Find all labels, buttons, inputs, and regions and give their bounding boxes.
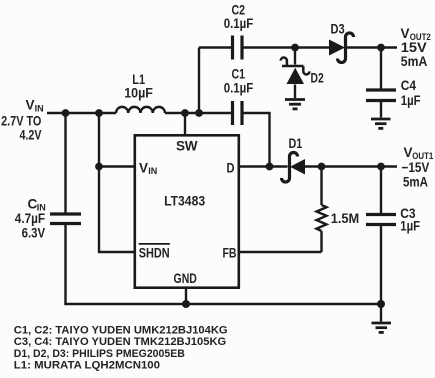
IC pin label VIN: [139, 160, 157, 176]
wire GND pin drop: [185, 288, 187, 304]
wire D pin: [239, 165, 270, 167]
node junction dot D2: [291, 44, 299, 52]
capacitor C4: [366, 48, 396, 118]
inductor L1: [116, 107, 165, 113]
wire x99 riser to SHDN: [99, 113, 135, 252]
svg-text:D3: D3: [331, 22, 346, 37]
node VOUT1 label: [402, 145, 434, 190]
capacitor C3: [366, 167, 396, 305]
wire D3 to VOUT2: [347, 46, 398, 48]
svg-text:FB: FB: [223, 245, 237, 260]
C3 label: [400, 206, 420, 234]
C4 label: [401, 78, 421, 108]
svg-text:C1: C1: [232, 67, 246, 82]
parts list text: [14, 325, 228, 372]
node junction dot R top: [318, 163, 326, 171]
svg-text:5mA: 5mA: [401, 54, 428, 69]
wire bottom ground rail: [66, 303, 382, 304]
node junction dot GND: [182, 300, 190, 308]
C1 label: [224, 67, 254, 96]
node junction dot C2 branch: [195, 109, 203, 117]
node VIN input label: [1, 98, 44, 143]
svg-text:15V: 15V: [401, 40, 427, 55]
L1 value label: [124, 72, 153, 101]
node junction dot B: [95, 109, 103, 117]
node junction dot bottom right: [377, 300, 385, 308]
wire FB: [239, 251, 322, 253]
svg-text:0.1µF: 0.1µF: [224, 81, 254, 96]
svg-text:10µF: 10µF: [124, 86, 153, 101]
diode D1: [270, 153, 398, 183]
svg-text:1µF: 1µF: [400, 219, 420, 234]
svg-text:5mA: 5mA: [403, 175, 428, 190]
svg-text:2.7V TO: 2.7V TO: [1, 114, 41, 129]
IC pin label SHDN with overline: [139, 244, 170, 260]
node junction dot VIN pin: [95, 163, 103, 171]
ground under D2: [285, 100, 305, 109]
svg-text:1µF: 1µF: [401, 93, 421, 108]
C2 label: [224, 3, 254, 32]
svg-text:V: V: [401, 26, 410, 41]
svg-text:D2: D2: [311, 71, 324, 86]
svg-text:−15V: −15V: [402, 160, 430, 175]
svg-text:IN: IN: [35, 104, 44, 114]
svg-text:C1, C2: TAIYO YUDEN UMK212BJ10: C1, C2: TAIYO YUDEN UMK212BJ104KG: [14, 325, 228, 337]
wire to main ground: [380, 304, 382, 322]
svg-text:1.5M: 1.5M: [331, 211, 360, 226]
node junction dot VOUT2: [377, 44, 385, 52]
svg-text:V: V: [139, 160, 148, 175]
svg-text:V: V: [26, 98, 35, 113]
diode D2: [281, 48, 310, 99]
svg-text:GND: GND: [174, 271, 198, 286]
svg-text:LT3483: LT3483: [164, 194, 205, 209]
svg-text:SHDN: SHDN: [139, 245, 170, 260]
wire VIN main right segment: [165, 112, 232, 114]
resistor R1 1.5M: [317, 167, 327, 253]
node VOUT2 label: [401, 26, 431, 69]
wire VIN pin: [99, 165, 135, 167]
svg-text:4.7µF: 4.7µF: [15, 211, 45, 226]
IC U1 LT3483 body: [135, 135, 239, 287]
capacitor C1: [233, 101, 243, 125]
wire C1 right to D node: [244, 113, 270, 167]
CIN label: [15, 197, 46, 241]
wire C2 right to D3: [244, 46, 330, 48]
svg-text:D1: D1: [289, 136, 303, 151]
wire VIN main left segment: [47, 112, 116, 114]
svg-text:4.2V: 4.2V: [20, 128, 42, 143]
capacitor CIN: [50, 214, 81, 304]
node junction dot SW: [181, 109, 189, 117]
svg-text:D: D: [227, 160, 235, 175]
capacitor C2: [233, 36, 243, 60]
wire SW drop: [184, 113, 186, 135]
node junction dot A: [62, 109, 70, 117]
svg-text:IN: IN: [148, 166, 157, 176]
svg-text:C3, C4: TAIYO YUDEN TMK212BJ10: C3, C4: TAIYO YUDEN TMK212BJ105KG: [14, 336, 227, 348]
node junction dot VOUT1: [377, 163, 385, 171]
diode D3: [329, 33, 354, 63]
wire CIN riser: [64, 113, 66, 213]
svg-text:V: V: [404, 145, 413, 160]
ground main: [372, 323, 392, 332]
svg-text:SW: SW: [176, 139, 198, 154]
node junction dot D: [266, 163, 274, 171]
svg-text:D1, D2, D3: PHILIPS PMEG2005EB: D1, D2, D3: PHILIPS PMEG2005EB: [14, 348, 185, 360]
svg-text:6.3V: 6.3V: [22, 226, 45, 241]
svg-text:C4: C4: [401, 78, 417, 93]
wire C2 left: [199, 46, 231, 48]
svg-text:0.1µF: 0.1µF: [224, 16, 254, 31]
svg-text:L1: MURATA LQH2MCN100: L1: MURATA LQH2MCN100: [14, 360, 160, 372]
wire C2 riser: [198, 48, 200, 114]
ground under C4: [371, 119, 391, 128]
